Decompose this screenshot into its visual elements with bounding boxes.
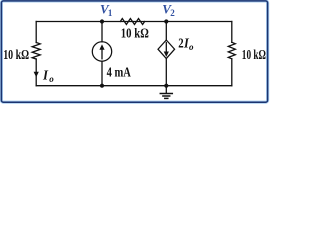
svg-text:1: 1 bbox=[108, 8, 113, 18]
svg-text:10 kΩ: 10 kΩ bbox=[3, 47, 29, 62]
svg-text:2: 2 bbox=[170, 8, 175, 18]
svg-text:I: I bbox=[42, 68, 49, 83]
svg-text:o: o bbox=[49, 74, 54, 84]
svg-text:10 kΩ: 10 kΩ bbox=[121, 25, 149, 40]
svg-text:o: o bbox=[189, 42, 194, 52]
svg-text:10 kΩ: 10 kΩ bbox=[242, 47, 266, 62]
svg-text:4 mA: 4 mA bbox=[107, 65, 131, 80]
